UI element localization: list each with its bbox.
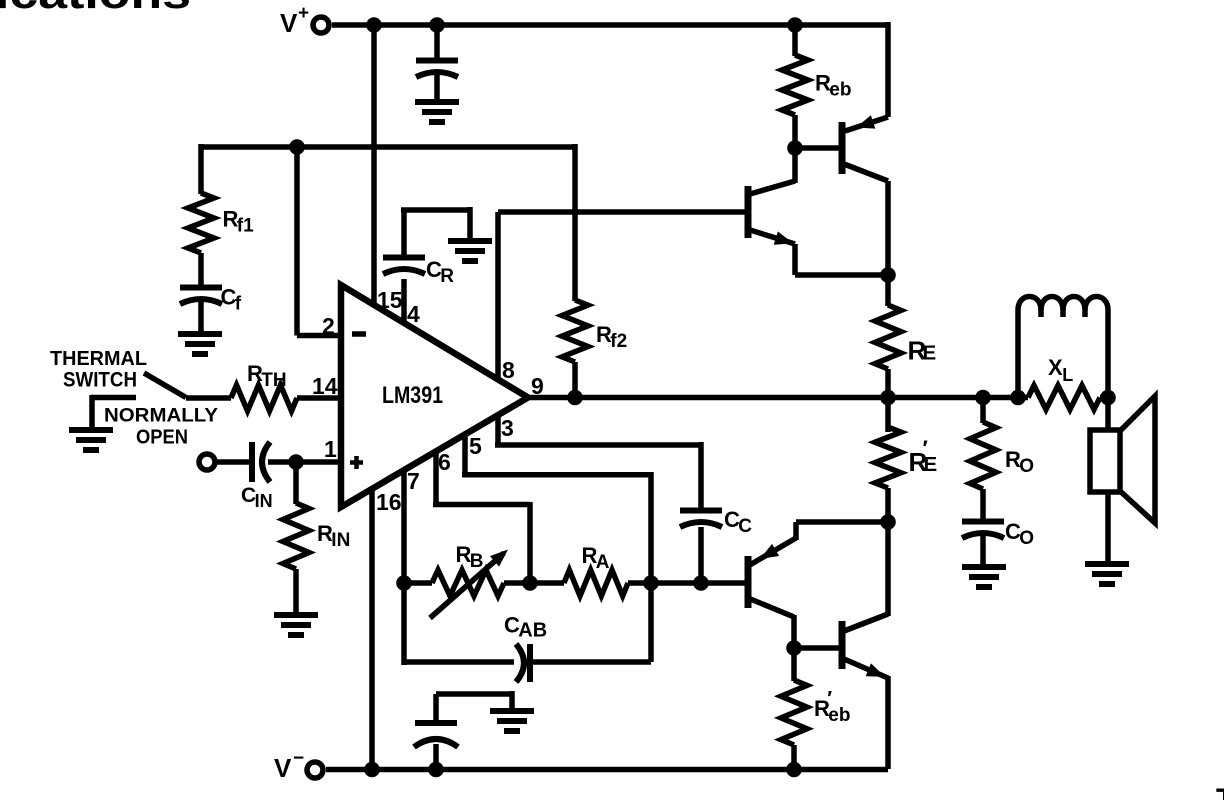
svg-text:IN: IN: [255, 491, 273, 511]
svg-text:V: V: [280, 8, 298, 38]
svg-text:O: O: [1019, 528, 1034, 549]
svg-text:14: 14: [312, 373, 338, 399]
svg-text:SWITCH: SWITCH: [63, 369, 137, 392]
svg-text:15: 15: [377, 287, 403, 313]
svg-text:1: 1: [324, 436, 337, 462]
svg-text:TH: TH: [261, 370, 286, 391]
svg-text:THERMAL: THERMAL: [50, 348, 147, 370]
svg-text:+: +: [298, 3, 309, 24]
svg-text:−: −: [293, 748, 304, 769]
svg-text:T: T: [1216, 783, 1224, 800]
svg-text:A: A: [596, 552, 610, 573]
svg-text:IN: IN: [331, 530, 350, 551]
svg-text:X: X: [1048, 355, 1063, 380]
svg-text:2: 2: [322, 313, 335, 339]
svg-text:f2: f2: [610, 331, 627, 352]
svg-text:5: 5: [469, 433, 482, 459]
svg-text:B: B: [470, 551, 484, 572]
svg-text:NORMALLY: NORMALLY: [104, 406, 218, 427]
svg-text:6: 6: [438, 449, 451, 475]
svg-text:f1: f1: [237, 216, 254, 237]
svg-text:AB: AB: [518, 620, 547, 642]
svg-text:3: 3: [501, 415, 514, 441]
svg-text:OPEN: OPEN: [136, 427, 188, 449]
svg-text:LM391: LM391: [382, 382, 443, 409]
svg-text:E: E: [923, 342, 937, 365]
svg-text:4: 4: [407, 301, 420, 327]
svg-text:′: ′: [827, 688, 832, 710]
svg-text:ications: ications: [0, 0, 191, 18]
svg-text:V: V: [274, 753, 292, 783]
svg-text:′: ′: [923, 436, 928, 461]
svg-text:16: 16: [376, 489, 402, 515]
svg-text:f: f: [235, 294, 242, 315]
svg-text:L: L: [1062, 365, 1073, 385]
svg-text:eb: eb: [829, 80, 851, 101]
svg-text:7: 7: [407, 468, 420, 494]
svg-text:R: R: [440, 266, 454, 287]
svg-text:8: 8: [502, 357, 515, 383]
svg-text:O: O: [1019, 456, 1034, 477]
svg-text:C: C: [738, 516, 752, 537]
